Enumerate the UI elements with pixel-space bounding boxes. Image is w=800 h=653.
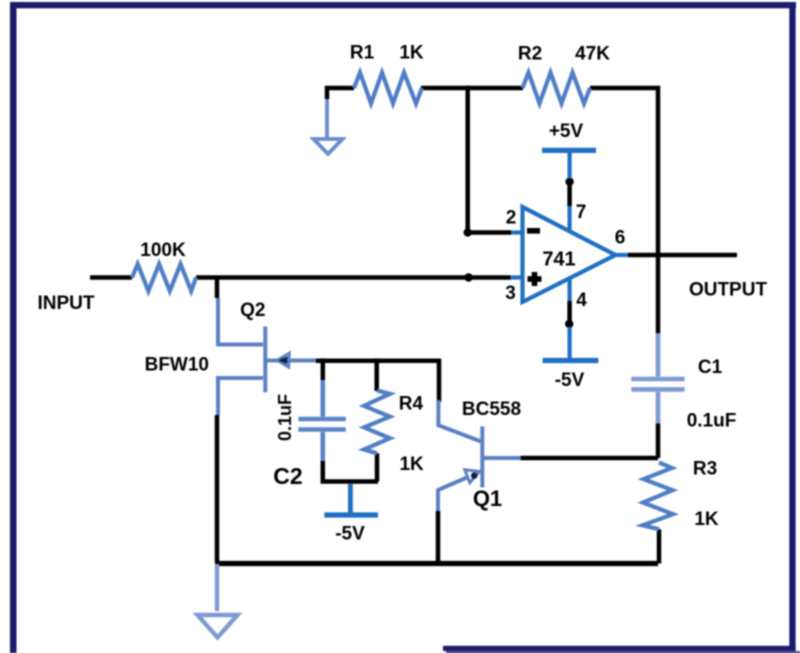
svg-text:0.1uF: 0.1uF [275,394,295,441]
svg-text:-5V: -5V [335,524,365,545]
svg-text:47K: 47K [575,44,610,65]
svg-text:7: 7 [576,202,587,223]
svg-text:R3: R3 [693,459,717,480]
svg-text:R4: R4 [399,394,424,415]
svg-text:3: 3 [505,283,516,304]
svg-text:1K: 1K [399,43,424,64]
svg-text:C2: C2 [273,463,302,489]
svg-text:BC558: BC558 [462,399,521,420]
svg-text:-5V: -5V [555,370,585,391]
svg-text:1K: 1K [694,509,719,530]
svg-text:741: 741 [542,249,575,271]
svg-text:4: 4 [576,290,587,311]
svg-text:6: 6 [615,228,626,249]
svg-text:100K: 100K [140,240,186,261]
svg-text:INPUT: INPUT [38,293,95,314]
svg-text:R2: R2 [518,44,542,65]
svg-text:C1: C1 [698,357,723,378]
svg-text:Q2: Q2 [240,300,265,321]
svg-text:OUTPUT: OUTPUT [689,280,768,301]
svg-text:Q1: Q1 [473,486,502,511]
svg-text:+5V: +5V [549,121,584,142]
svg-text:BFW10: BFW10 [145,355,209,376]
svg-text:R1: R1 [350,43,375,64]
svg-text:0.1uF: 0.1uF [687,411,737,432]
svg-text:2: 2 [506,208,517,229]
svg-text:1K: 1K [399,454,424,475]
